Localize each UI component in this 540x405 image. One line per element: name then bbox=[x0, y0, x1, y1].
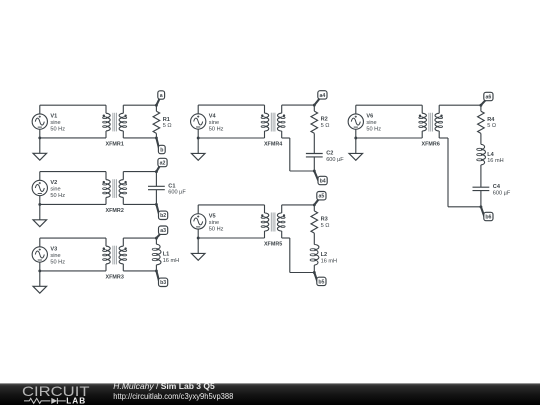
inductor L2 bbox=[310, 245, 337, 266]
junction bbox=[38, 269, 41, 272]
wire bbox=[155, 238, 157, 244]
svg-text:R3: R3 bbox=[321, 217, 328, 223]
wire bbox=[313, 265, 315, 272]
voltage source V1 bbox=[32, 114, 65, 133]
node a3 bbox=[155, 226, 168, 240]
wire bbox=[155, 172, 157, 187]
capacitor C4 bbox=[473, 184, 511, 196]
svg-text:5 Ω: 5 Ω bbox=[321, 123, 330, 129]
svg-text:50 Hz: 50 Hz bbox=[50, 127, 65, 133]
wire bbox=[39, 129, 41, 138]
voltage source V6 bbox=[348, 114, 381, 133]
ground bbox=[33, 204, 47, 226]
svg-text:600 µF: 600 µF bbox=[168, 190, 186, 196]
node a bbox=[155, 91, 165, 107]
svg-text:XFMR1: XFMR1 bbox=[106, 141, 124, 147]
wire bbox=[39, 238, 41, 247]
CircuitLab logo bbox=[22, 384, 90, 405]
svg-text:b2: b2 bbox=[160, 213, 166, 219]
wire bbox=[198, 137, 264, 139]
wire bbox=[40, 270, 106, 272]
svg-text:V3: V3 bbox=[50, 246, 57, 252]
wire bbox=[282, 137, 290, 139]
svg-text:R1: R1 bbox=[163, 117, 170, 123]
wire bbox=[290, 272, 315, 274]
voltage source V4 bbox=[191, 114, 224, 133]
svg-text:50 Hz: 50 Hz bbox=[50, 259, 65, 265]
node a6 bbox=[479, 92, 493, 106]
wire bbox=[289, 138, 291, 171]
node b bbox=[155, 136, 165, 153]
ground bbox=[33, 271, 47, 293]
svg-text:50 Hz: 50 Hz bbox=[366, 127, 381, 133]
svg-text:a2: a2 bbox=[160, 160, 166, 166]
ground bbox=[191, 238, 205, 260]
svg-text:V5: V5 bbox=[209, 213, 216, 219]
node a5 bbox=[313, 192, 326, 207]
wire bbox=[355, 105, 357, 114]
wire bbox=[197, 229, 199, 238]
svg-text:http://circuitlab.com/c3yxy9h5: http://circuitlab.com/c3yxy9h5vp388 bbox=[113, 392, 233, 401]
transformer XFMR3 bbox=[103, 238, 127, 280]
node b5 bbox=[313, 271, 326, 286]
svg-text:b: b bbox=[160, 147, 163, 153]
wire bbox=[313, 133, 315, 153]
voltage source V5 bbox=[191, 213, 224, 232]
svg-text:a4: a4 bbox=[320, 93, 326, 99]
ground bbox=[33, 138, 47, 160]
wire bbox=[39, 262, 41, 271]
wire bbox=[198, 237, 264, 239]
transformer XFMR2 bbox=[103, 172, 127, 214]
wire bbox=[356, 137, 422, 139]
svg-text:sine: sine bbox=[50, 120, 60, 126]
svg-text:V2: V2 bbox=[50, 180, 57, 186]
wire bbox=[480, 133, 482, 144]
wire bbox=[197, 205, 199, 214]
svg-text:sine: sine bbox=[50, 253, 60, 259]
wire bbox=[282, 104, 315, 106]
svg-text:L2: L2 bbox=[321, 252, 328, 258]
svg-text:C1: C1 bbox=[168, 183, 175, 189]
wire bbox=[480, 165, 482, 187]
wire bbox=[480, 191, 482, 207]
ground bbox=[349, 138, 363, 160]
wire bbox=[40, 237, 106, 239]
svg-text:16 mH: 16 mH bbox=[321, 258, 337, 264]
svg-text:H.Mulcahy / Sim Lab 3 Q5: H.Mulcahy / Sim Lab 3 Q5 bbox=[113, 382, 215, 391]
svg-text:C2: C2 bbox=[326, 151, 333, 157]
junction bbox=[197, 237, 200, 240]
resistor R4 bbox=[478, 111, 496, 133]
inductor L4 bbox=[477, 144, 504, 165]
wire bbox=[123, 237, 156, 239]
voltage source V3 bbox=[32, 246, 65, 265]
svg-text:V4: V4 bbox=[209, 114, 217, 120]
transformer XFMR5 bbox=[261, 205, 285, 248]
wire bbox=[40, 171, 106, 173]
svg-text:XFMR5: XFMR5 bbox=[264, 241, 282, 247]
svg-text:V6: V6 bbox=[366, 114, 373, 120]
svg-text:50 Hz: 50 Hz bbox=[209, 226, 224, 232]
wire bbox=[39, 105, 41, 114]
wire bbox=[123, 137, 156, 139]
svg-text:sine: sine bbox=[50, 187, 60, 193]
svg-text:L1: L1 bbox=[163, 252, 170, 258]
wire bbox=[313, 157, 315, 171]
wire bbox=[480, 105, 482, 111]
node b6 bbox=[479, 205, 493, 220]
wire bbox=[282, 237, 290, 239]
svg-text:b6: b6 bbox=[485, 214, 491, 220]
wire bbox=[155, 105, 157, 111]
wire bbox=[123, 104, 156, 106]
svg-text:b3: b3 bbox=[160, 280, 166, 286]
svg-text:sine: sine bbox=[209, 220, 219, 226]
wire bbox=[447, 138, 449, 207]
wire bbox=[313, 205, 315, 211]
svg-text:5 Ω: 5 Ω bbox=[321, 223, 330, 229]
svg-text:XFMR6: XFMR6 bbox=[422, 141, 440, 147]
svg-text:50 Hz: 50 Hz bbox=[50, 193, 65, 199]
wire bbox=[40, 137, 106, 139]
transformer XFMR1 bbox=[103, 105, 127, 147]
wire bbox=[313, 233, 315, 244]
svg-text:5 Ω: 5 Ω bbox=[163, 123, 172, 129]
wire bbox=[290, 170, 315, 172]
voltage source V2 bbox=[32, 180, 65, 199]
wire bbox=[282, 204, 315, 206]
wire bbox=[155, 265, 157, 271]
wire bbox=[39, 196, 41, 205]
capacitor C1 bbox=[148, 183, 186, 195]
svg-text:LAB: LAB bbox=[66, 397, 86, 405]
node a2 bbox=[155, 158, 167, 173]
node b3 bbox=[155, 269, 168, 286]
svg-text:16 mH: 16 mH bbox=[163, 258, 179, 264]
svg-text:a: a bbox=[160, 93, 163, 99]
junction bbox=[354, 137, 357, 140]
junction bbox=[197, 137, 200, 140]
wire bbox=[123, 203, 156, 205]
svg-text:16 mH: 16 mH bbox=[487, 158, 503, 164]
svg-text:XFMR4: XFMR4 bbox=[264, 141, 282, 147]
wire bbox=[197, 105, 199, 114]
svg-text:XFMR2: XFMR2 bbox=[106, 208, 124, 214]
transformer XFMR4 bbox=[261, 105, 285, 147]
junction bbox=[38, 203, 41, 206]
node b2 bbox=[155, 203, 168, 220]
transformer XFMR6 bbox=[419, 105, 443, 147]
wire bbox=[155, 190, 157, 205]
wire bbox=[40, 104, 106, 106]
svg-text:b5: b5 bbox=[318, 279, 324, 285]
node a4 bbox=[313, 91, 327, 107]
wire bbox=[439, 137, 448, 139]
wire bbox=[439, 104, 481, 106]
svg-text:sine: sine bbox=[209, 120, 219, 126]
resistor R1 bbox=[153, 111, 171, 133]
ground bbox=[191, 138, 205, 160]
wire bbox=[39, 172, 41, 181]
svg-text:50 Hz: 50 Hz bbox=[209, 126, 224, 132]
wire bbox=[356, 104, 422, 106]
wire bbox=[355, 129, 357, 138]
wire bbox=[123, 171, 156, 173]
wire bbox=[313, 105, 315, 111]
svg-text:sine: sine bbox=[366, 120, 376, 126]
svg-text:a6: a6 bbox=[486, 94, 492, 100]
svg-text:a3: a3 bbox=[160, 228, 166, 234]
svg-text:a5: a5 bbox=[319, 194, 325, 200]
svg-text:R4: R4 bbox=[487, 117, 495, 123]
junction bbox=[38, 136, 41, 139]
wire bbox=[155, 133, 157, 138]
svg-text:R2: R2 bbox=[321, 117, 328, 123]
resistor R3 bbox=[311, 211, 329, 233]
wire bbox=[289, 238, 291, 273]
wire bbox=[198, 204, 264, 206]
svg-text:600 µF: 600 µF bbox=[493, 191, 511, 197]
wire bbox=[123, 270, 156, 272]
svg-text:5 Ω: 5 Ω bbox=[487, 123, 496, 129]
wire bbox=[198, 104, 264, 106]
svg-text:C4: C4 bbox=[493, 184, 501, 190]
svg-text:b4: b4 bbox=[320, 178, 326, 184]
svg-text:600 µF: 600 µF bbox=[326, 157, 344, 163]
resistor R2 bbox=[311, 111, 329, 133]
wire bbox=[197, 129, 199, 138]
inductor L1 bbox=[152, 244, 179, 265]
svg-text:L4: L4 bbox=[487, 152, 494, 158]
svg-text:V1: V1 bbox=[50, 114, 57, 120]
node b4 bbox=[313, 170, 327, 185]
capacitor C2 bbox=[306, 151, 344, 163]
wire bbox=[40, 203, 106, 205]
wire bbox=[448, 206, 481, 208]
svg-text:XFMR3: XFMR3 bbox=[106, 274, 124, 280]
